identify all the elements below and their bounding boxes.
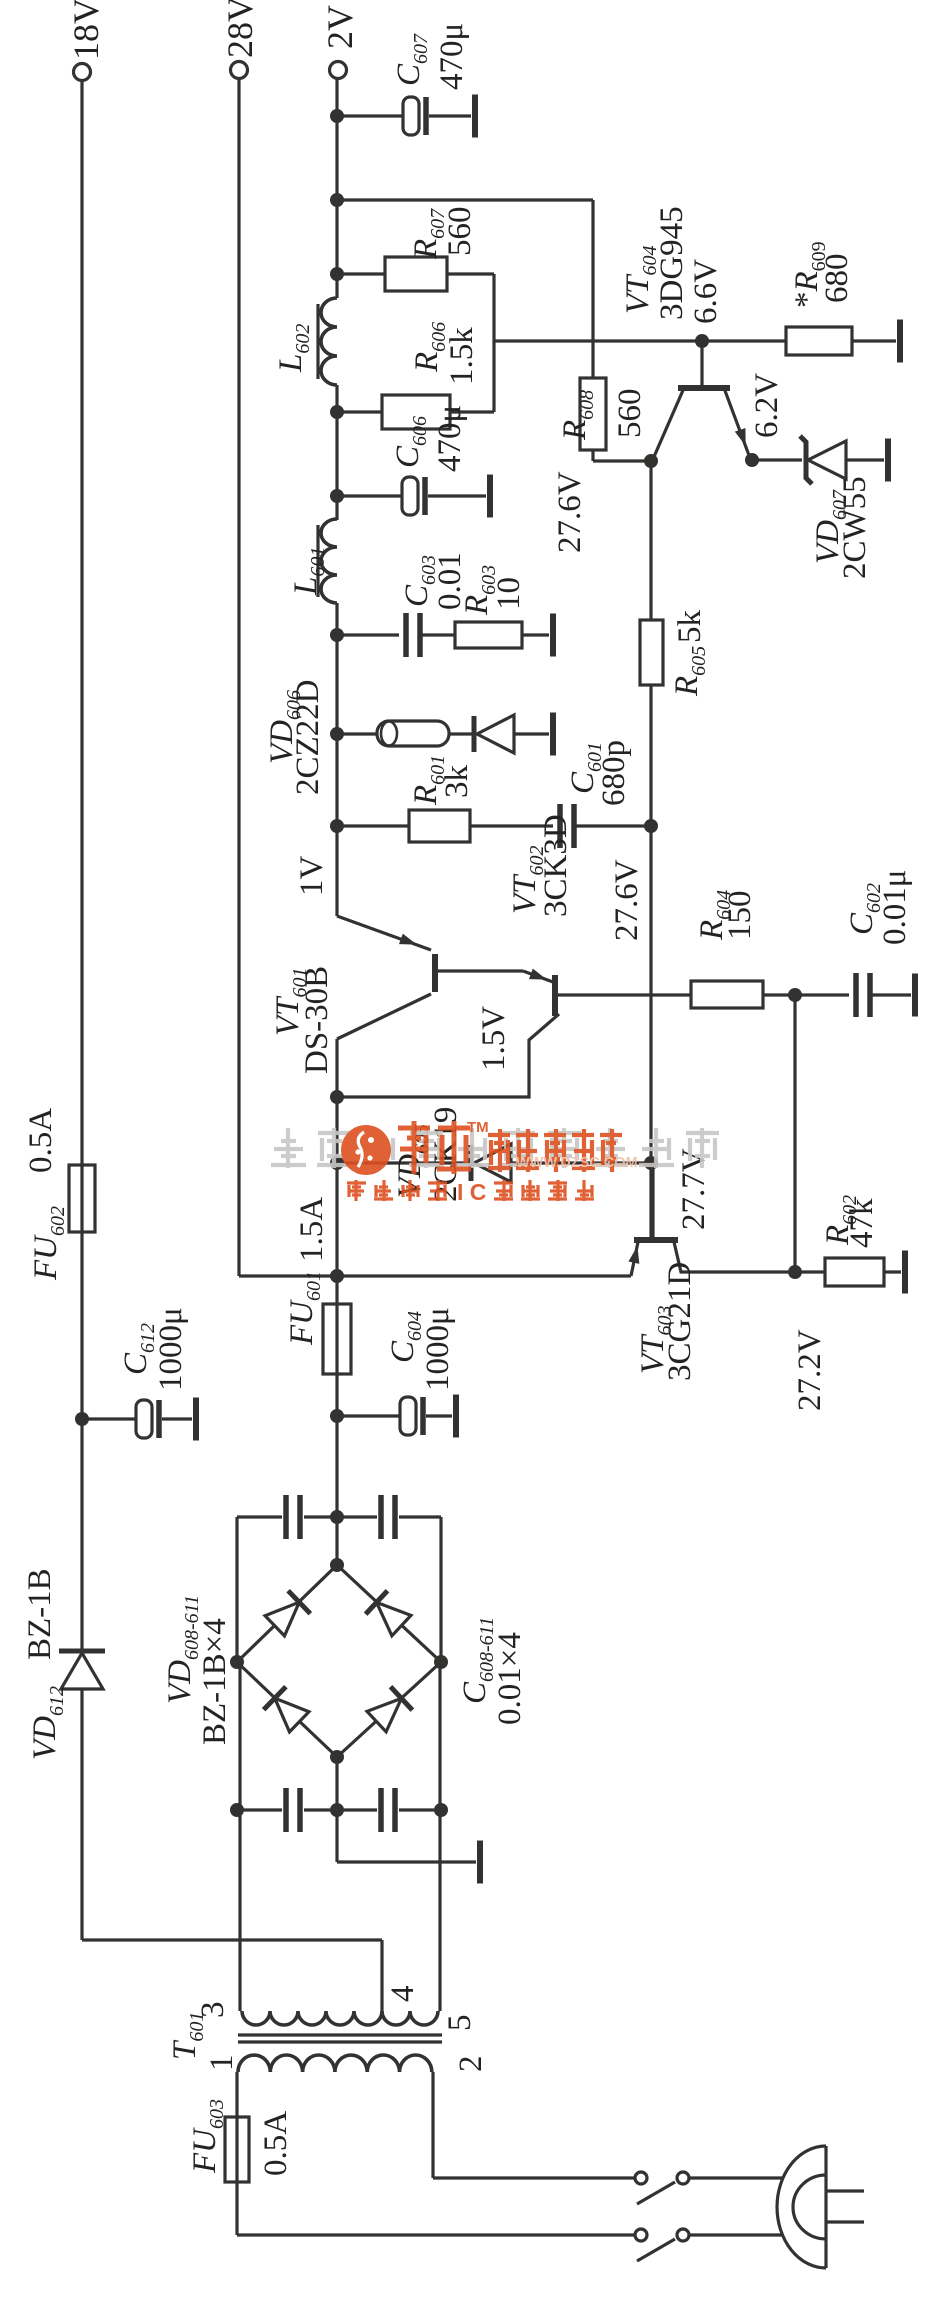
core line of L602 [316, 304, 319, 379]
svg-text:1.5k: 1.5k [444, 327, 480, 385]
svg-text:1V: 1V [294, 856, 330, 897]
wire main unregulated line y=337 left part [335, 1039, 338, 1565]
terminal 2V output [330, 62, 347, 79]
node bridge AC bottom [434, 1655, 448, 1669]
terminal 18V output [74, 64, 91, 81]
terminal 28V output [231, 62, 248, 79]
core line of L601 [316, 525, 319, 597]
svg-text:1000μ: 1000μ [420, 1307, 456, 1391]
resistor R601 (3k) series capacitor C601 (680p) [330, 819, 344, 833]
switch lower pole [635, 2229, 647, 2241]
fuse FU603 (0.5A) [225, 2117, 249, 2182]
svg-text:WWW.DZSC.COM: WWW.DZSC.COM [516, 1155, 638, 1171]
transformer T601 core [238, 2040, 442, 2043]
wire 18V drop to transformer tap 4 [82, 1938, 382, 1941]
svg-text:27.6V: 27.6V [609, 859, 645, 941]
inductor L601 on 2V rail [321, 519, 337, 603]
svg-text:0.01×4: 0.01×4 [492, 1632, 528, 1725]
svg-text:3CG21D: 3CG21D [662, 1262, 698, 1381]
plug pin 1 [826, 2189, 864, 2192]
transistor VT601 (DS-30B) series pass [432, 954, 438, 992]
wire emitter VT604 to zener [745, 453, 759, 467]
wire 18V rail [80, 80, 83, 1940]
svg-text:560: 560 [442, 207, 478, 257]
wire bridge AC top to caps column [235, 1517, 238, 1662]
fuse FU602 [69, 1165, 95, 1232]
svg-text:I C: I C [457, 1179, 486, 1205]
wire bracket joining R607/R606 to VT604 base line [492, 274, 495, 412]
resistor R603 (10) [455, 622, 522, 648]
wire from 2V rail to R608 [330, 193, 344, 207]
transistor VT603 (3CG21D) [634, 1237, 678, 1243]
watermark brand big characters [412, 1121, 417, 1174]
svg-text:3CK3D: 3CK3D [538, 814, 574, 917]
fuse FU601 (1.5A) [323, 1304, 351, 1374]
svg-text:470μ: 470μ [432, 405, 468, 472]
svg-text:27.2V: 27.2V [792, 1329, 828, 1411]
diode bridge bottom-right [366, 1591, 413, 1638]
ground (bridge DC-) [477, 1841, 483, 1884]
bridge rectifier VD608-611 diamond [237, 1565, 441, 1757]
diode bridge bottom-left [366, 1687, 413, 1734]
node bridge DC+ [330, 1558, 344, 1572]
wire primary top lead with fuse FU603 [235, 2072, 238, 2235]
ground (C602) [912, 974, 918, 1017]
ground (VD607) [885, 439, 891, 482]
svg-text:0.5A: 0.5A [258, 2111, 294, 2176]
wire 28V rail [237, 79, 240, 1276]
ground (C607) [472, 95, 478, 138]
svg-text:BZ-1B: BZ-1B [22, 1568, 58, 1660]
wire R608 to 27.6V node [591, 450, 594, 461]
svg-text:6.2V: 6.2V [749, 373, 785, 438]
resistor R608 [580, 378, 606, 450]
svg-text:TM: TM [467, 1119, 489, 1136]
svg-text:DS-30B: DS-30B [299, 966, 335, 1074]
svg-text:0.01μ: 0.01μ [877, 870, 913, 945]
watermark suffix characters [506, 1140, 510, 1164]
svg-text:560: 560 [612, 389, 648, 439]
wire FU603 down to switch [237, 2233, 635, 2236]
zener diode VD607 (2CW55) [800, 436, 812, 484]
svg-text:1.5A: 1.5A [294, 1197, 330, 1262]
AC plug [777, 2146, 826, 2268]
capacitor C607 (470u) on 2V rail [330, 109, 344, 123]
wire main regulated 2V rail right part [335, 603, 338, 916]
svg-text:10: 10 [491, 577, 527, 610]
wire bridge AC bottom to caps column [439, 1517, 442, 1662]
wire AC bus top (tap 3) [238, 1662, 241, 2011]
svg-text:1000μ: 1000μ [153, 1307, 189, 1391]
node dot C601 on 27.6V line [644, 819, 658, 833]
ground (C612) [193, 1398, 199, 1441]
ground (C604) [453, 1395, 459, 1438]
capacitor pair C610/C611 left column [237, 1808, 282, 1811]
transistor VT602 (3CK3D) [523, 971, 553, 982]
node bridge AC top [230, 1655, 244, 1669]
svg-text:5k: 5k [672, 610, 708, 644]
resistor R602 (47k) [795, 1270, 825, 1273]
resistor R606 (1.5k) [330, 405, 344, 419]
ground (R602) [902, 1251, 908, 1294]
svg-text:27.7V: 27.7V [676, 1148, 712, 1230]
capacitor C604 (1000u) [330, 1409, 344, 1423]
diode VD606 (2CZ22D) with tube body [330, 727, 344, 741]
inductor L602 on 2V rail [321, 298, 337, 385]
svg-text:BZ-1B×4: BZ-1B×4 [197, 1618, 233, 1745]
plug pin 2 [826, 2220, 864, 2223]
watermark logo red circle [341, 1125, 391, 1175]
ground (R603) [550, 614, 556, 657]
diode VD605 (2CK19) [330, 1156, 344, 1170]
capacitor C603 with resistor R603 to ground [330, 628, 344, 642]
node 28V tap junction [330, 1269, 344, 1283]
svg-text:47k: 47k [844, 1198, 880, 1248]
diode bridge top-left [264, 1687, 311, 1734]
svg-text:470μ: 470μ [434, 23, 470, 90]
transistor VT604 (3DG945) [695, 334, 709, 348]
wire AC bus bottom (tap 5) [438, 1662, 441, 2011]
diode VD612 on 18V rail [61, 1653, 103, 1689]
svg-text:3k: 3k [439, 765, 475, 799]
svg-text:2CW55: 2CW55 [837, 476, 873, 579]
watermark slogan characters [347, 1185, 350, 1197]
svg-text:2: 2 [453, 2056, 489, 2073]
wire primary bottom lead [431, 2072, 434, 2178]
watermark gray company text [281, 1154, 296, 1158]
switch upper pole [635, 2172, 647, 2184]
svg-text:4: 4 [385, 1986, 421, 2003]
wire C602 node to VT603 collector [793, 995, 796, 1272]
svg-text:27.6V: 27.6V [552, 471, 588, 553]
svg-text:5: 5 [442, 2015, 478, 2032]
ground (VD606) [550, 713, 556, 756]
svg-text:3DG945: 3DG945 [654, 206, 690, 320]
capacitor C602 (0.01u) [795, 993, 849, 996]
diode bridge top-right [264, 1591, 311, 1638]
svg-text:680p: 680p [596, 740, 632, 806]
svg-text:150: 150 [722, 891, 758, 941]
resistor R607 (560) [330, 267, 344, 281]
node 27.6V junction dot (collector VT604/R608) [644, 454, 658, 468]
node bridge DC- [330, 1750, 344, 1764]
wire bridge DC- to ground [335, 1757, 338, 1862]
svg-text:28V: 28V [220, 0, 260, 58]
svg-text:0.5A: 0.5A [23, 1108, 59, 1173]
resistor R605 (5k) [640, 620, 663, 685]
svg-text:18V: 18V [66, 0, 106, 60]
svg-text:2V: 2V [320, 5, 360, 49]
capacitor C606 (470u) [330, 489, 344, 503]
ground (C606) [487, 475, 493, 518]
svg-text:6.6V: 6.6V [688, 259, 724, 324]
svg-text:680: 680 [819, 254, 855, 304]
svg-text:1.5V: 1.5V [476, 1006, 512, 1071]
svg-text:1: 1 [204, 2055, 240, 2072]
wire 27.6V line [649, 461, 652, 1238]
ground (R609) [897, 320, 903, 363]
svg-text:2CZ22D: 2CZ22D [290, 680, 326, 796]
capacitor C612 (1000u) on 18V rail [75, 1412, 89, 1426]
wire 28V drop to VT603 emitter [239, 1274, 631, 1277]
transformer T601 primary winding [238, 2055, 432, 2072]
transformer T601 secondary winding [242, 2011, 382, 2025]
capacitor pair C608/C609 right column [237, 1515, 282, 1518]
resistor R609 (680) [786, 327, 852, 355]
resistor R604 (150) [691, 981, 763, 1008]
